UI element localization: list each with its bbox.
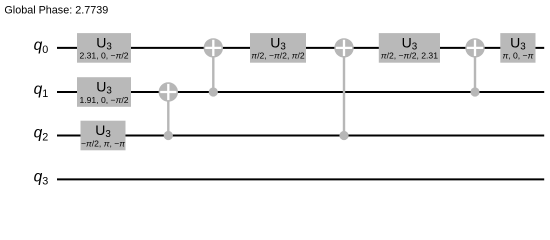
cnot CX2 target on q0 [204, 38, 223, 57]
gate U3 on q1 layer1 value 1.91, 0, -pi/2 [77, 77, 131, 107]
cnot CX1 control dot on q2 [164, 131, 173, 140]
global phase label [4, 5, 108, 17]
wire q0 [57, 47, 544, 49]
qubit label q2 [34, 125, 49, 144]
qubit label q3 [34, 168, 49, 187]
cnot CX1 vertical wire q1-q2 [167, 92, 169, 136]
gate U3 on q0 layer1 value 2.31, 0, -pi/2 [77, 33, 131, 63]
cnot CX4 vertical wire q0-q1 [474, 48, 476, 92]
svg-text:2.31, 0, −π/2: 2.31, 0, −π/2 [79, 51, 128, 61]
cnot CX2 control dot on q1 [209, 87, 218, 96]
cnot CX4 control dot on q1 [470, 87, 479, 96]
cnot CX3 vertical wire q0-q2 [343, 48, 345, 136]
cnot CX4 target on q0 [465, 38, 484, 57]
svg-text:π/2, −π/2, π/2: π/2, −π/2, π/2 [251, 51, 305, 61]
qubit label q0 [34, 37, 49, 56]
svg-text:1.91, 0, −π/2: 1.91, 0, −π/2 [79, 95, 128, 105]
svg-text:π, 0, −π: π, 0, −π [502, 51, 533, 61]
gate U3 on q0 layer4 value pi/2, -pi/2, pi/2 [250, 33, 306, 63]
gate U3 on q2 layer1 value -pi/2, pi, -pi [81, 121, 126, 151]
svg-text:−π/2, π, −π: −π/2, π, −π [81, 138, 125, 148]
cnot CX2 vertical wire q0-q1 [212, 48, 214, 92]
svg-text:π/2, −π/2, 2.31: π/2, −π/2, 2.31 [381, 51, 438, 61]
wire q3 [57, 178, 544, 180]
wire q2 [57, 135, 544, 137]
cnot CX3 control dot on q2 [339, 131, 348, 140]
qubit label q1 [34, 81, 49, 100]
gate U3 on q0 layer8 value pi, 0, -pi [500, 33, 535, 63]
wire q1 [57, 91, 544, 93]
svg-text:Global Phase: 2.7739: Global Phase: 2.7739 [4, 5, 108, 17]
cnot CX1 target on q1 [159, 82, 178, 101]
gate U3 on q0 layer6 value pi/2, -pi/2, 2.31 [379, 33, 440, 63]
cnot CX3 target on q0 [334, 38, 353, 57]
